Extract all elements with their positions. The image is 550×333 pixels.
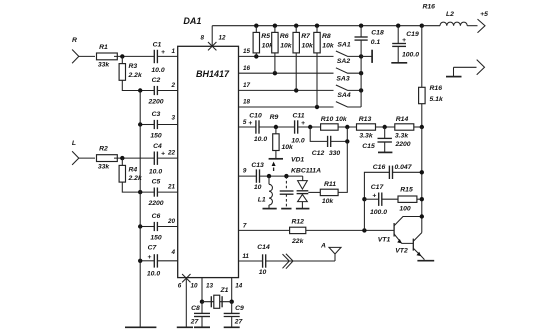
ground at C19 — [391, 62, 407, 64]
svg-text:2200: 2200 — [147, 98, 163, 105]
svg-text:Z1: Z1 — [220, 287, 229, 294]
svg-text:14: 14 — [235, 283, 243, 290]
resistor R1 33k — [97, 44, 155, 69]
node rail junctions — [254, 24, 424, 28]
wire pin 14 stub — [230, 278, 243, 304]
ground main left — [125, 326, 156, 328]
svg-text:2.2k: 2.2k — [128, 72, 143, 79]
wire pin 17 line — [239, 82, 334, 93]
capacitor C1 10.0 — [151, 41, 177, 74]
capacitor C19 100.0 — [392, 26, 419, 63]
svg-text:C15: C15 — [362, 143, 375, 150]
node L input connector — [72, 140, 95, 165]
svg-text:2200: 2200 — [394, 141, 410, 148]
wire pin 12 to top rail with X on pin 8 — [201, 26, 226, 51]
svg-text:20: 20 — [167, 218, 176, 225]
capacitor C4 10.0 (pin 22 line) — [149, 143, 178, 176]
svg-text:7: 7 — [243, 223, 247, 230]
svg-text:R13: R13 — [359, 116, 372, 123]
resistor R10 10k — [308, 116, 357, 130]
svg-text:C7: C7 — [148, 245, 158, 252]
svg-text:3.3k: 3.3k — [395, 133, 409, 140]
node antenna A — [320, 243, 341, 261]
svg-text:VT2: VT2 — [395, 247, 408, 254]
svg-text:VT1: VT1 — [378, 236, 391, 243]
svg-text:3.3k: 3.3k — [359, 133, 373, 140]
svg-text:R14: R14 — [396, 116, 409, 123]
transistor VD1 KBC111A dual varactor — [291, 156, 321, 208]
wire pin 15 line — [239, 48, 334, 59]
capacitor C18 0.1 with switch common rail — [355, 26, 384, 107]
svg-text:22k: 22k — [291, 238, 305, 245]
svg-text:C13: C13 — [251, 162, 264, 169]
inductor L1 with ground — [258, 174, 277, 209]
svg-text:R16: R16 — [422, 3, 435, 10]
svg-text:C2: C2 — [152, 77, 161, 84]
resistor R7 10k — [293, 26, 314, 91]
svg-text:10: 10 — [259, 269, 267, 276]
capacitor C6 150 (pin 20 line) — [138, 213, 178, 241]
svg-text:L: L — [72, 140, 76, 147]
capacitor C15 2200 with ground — [362, 127, 411, 152]
svg-text:C3: C3 — [152, 111, 161, 118]
svg-text:+: + — [161, 49, 165, 56]
capacitor C14 10 — [257, 244, 335, 276]
svg-text:22: 22 — [167, 150, 176, 157]
svg-text:L2: L2 — [446, 11, 454, 18]
svg-text:R7: R7 — [301, 33, 311, 40]
svg-text:18: 18 — [243, 99, 251, 106]
wire pin 18 line — [239, 99, 334, 110]
switch SA4 — [336, 92, 361, 107]
svg-text:KBC111A: KBC111A — [291, 167, 321, 174]
capacitor C10 10.0 — [249, 113, 294, 144]
resistor R11 10k — [308, 141, 347, 205]
svg-text:13: 13 — [206, 283, 214, 290]
transistor VT2 — [395, 233, 434, 261]
wire top supply rail — [212, 25, 422, 27]
capacitor C13 10 — [251, 162, 302, 191]
svg-text:C6: C6 — [152, 213, 161, 220]
resistor R5 10k — [253, 26, 274, 57]
svg-text:SA1: SA1 — [337, 41, 350, 48]
wire pin 7 line — [239, 223, 290, 231]
wire pin 11 line — [239, 253, 263, 261]
svg-text:10k: 10k — [322, 198, 335, 205]
svg-text:SA2: SA2 — [337, 58, 350, 65]
inductor L2 — [422, 11, 467, 26]
capacitor C3 150 (pin 3 line) — [138, 111, 178, 139]
capacitor C8 27 with ground — [190, 302, 210, 328]
svg-text:C12: C12 — [312, 150, 325, 157]
resistor R9 10k with ground — [269, 114, 294, 159]
svg-text:R15: R15 — [400, 187, 413, 194]
svg-text:10k: 10k — [322, 42, 335, 49]
svg-text:0.047: 0.047 — [394, 164, 412, 171]
switch SA1 — [336, 41, 363, 58]
svg-text:10k: 10k — [280, 42, 293, 49]
svg-text:R8: R8 — [322, 33, 331, 40]
transistor VT1 — [378, 214, 424, 243]
svg-text:C18: C18 — [371, 30, 384, 37]
svg-text:150: 150 — [150, 132, 162, 139]
svg-text:10k: 10k — [335, 116, 348, 123]
svg-text:+5: +5 — [480, 11, 488, 18]
svg-text:10.0: 10.0 — [149, 169, 162, 176]
resistor R14 3.3k — [395, 116, 424, 139]
svg-text:100: 100 — [399, 205, 411, 212]
svg-text:10.0: 10.0 — [151, 67, 164, 74]
svg-text:+: + — [248, 120, 252, 127]
svg-text:C17: C17 — [371, 184, 385, 191]
resistor R2 33k — [97, 146, 155, 171]
resistor R8 10k — [314, 26, 335, 107]
resistor R3 2.2k — [119, 56, 154, 90]
svg-text:10.0: 10.0 — [147, 271, 160, 278]
svg-text:C14: C14 — [257, 244, 270, 251]
svg-text:27: 27 — [190, 319, 200, 326]
svg-text:C16: C16 — [373, 164, 386, 171]
svg-text:2: 2 — [171, 82, 176, 89]
svg-text:R11: R11 — [324, 181, 336, 188]
svg-text:+: + — [372, 192, 376, 199]
svg-text:A: A — [320, 243, 326, 250]
resistor R16 5.1k — [419, 26, 444, 127]
svg-text:C11: C11 — [293, 113, 305, 120]
svg-text:SA3: SA3 — [336, 75, 349, 82]
svg-text:10: 10 — [190, 283, 198, 290]
svg-text:BH1417: BH1417 — [196, 69, 230, 79]
svg-text:R10: R10 — [321, 116, 334, 123]
svg-text:16: 16 — [243, 65, 251, 72]
svg-text:8: 8 — [201, 34, 205, 41]
crystal Z1 — [202, 287, 232, 309]
resistor R6 10k — [272, 26, 293, 73]
svg-text:17: 17 — [243, 82, 251, 89]
svg-text:27: 27 — [234, 319, 244, 326]
svg-text:10.0: 10.0 — [291, 137, 304, 144]
svg-text:C8: C8 — [191, 305, 200, 312]
node power ground return connector — [446, 60, 485, 77]
svg-text:10k: 10k — [282, 144, 295, 151]
resistor R4 2.2k — [119, 158, 154, 192]
svg-text:+: + — [301, 120, 305, 127]
svg-text:21: 21 — [167, 183, 176, 190]
wire right rail below R14 — [421, 127, 423, 233]
svg-text:6: 6 — [178, 283, 182, 290]
svg-text:R3: R3 — [129, 63, 138, 70]
capacitor C5 2200 (pin 21 line) — [138, 179, 178, 207]
capacitor C11 10.0 — [291, 113, 320, 145]
capacitor C7 10.0 (pin 4 line) — [138, 245, 178, 278]
svg-text:C10: C10 — [249, 113, 262, 120]
svg-text:10k: 10k — [302, 42, 315, 49]
wire pin 16 line — [239, 65, 334, 76]
ground at C18 / switches — [361, 50, 372, 63]
svg-text:R1: R1 — [99, 44, 108, 51]
capacitor C2 2200 (pin 2 line) — [138, 77, 178, 105]
svg-text:150: 150 — [150, 234, 162, 241]
svg-text:4: 4 — [171, 249, 176, 256]
svg-text:11: 11 — [242, 253, 249, 260]
node R input connector — [72, 37, 95, 63]
capacitor C16 0.047 — [364, 164, 424, 199]
capacitor stray (dashed branch) with ground — [280, 174, 294, 209]
svg-text:5: 5 — [243, 119, 247, 126]
svg-text:100.0: 100.0 — [402, 51, 419, 58]
svg-text:R5: R5 — [261, 33, 270, 40]
svg-text:10: 10 — [254, 184, 262, 191]
op-amp U1 : IC DA1 BH1417 body — [178, 16, 239, 278]
svg-text:+: + — [402, 37, 406, 44]
svg-text:C4: C4 — [153, 143, 162, 150]
svg-text:15: 15 — [243, 48, 251, 55]
svg-text:R4: R4 — [129, 166, 138, 173]
svg-text:R12: R12 — [291, 218, 304, 225]
svg-text:3: 3 — [172, 114, 176, 121]
node RF output chevron connector — [283, 254, 294, 269]
node +5 output connector — [467, 11, 488, 33]
svg-text:VD1: VD1 — [291, 156, 304, 163]
svg-text:R16: R16 — [430, 85, 443, 92]
svg-text:100.0: 100.0 — [370, 209, 387, 216]
svg-text:12: 12 — [218, 34, 226, 41]
svg-text:L1: L1 — [258, 197, 266, 204]
svg-text:+: + — [161, 151, 165, 158]
wire left ground bus — [139, 91, 141, 328]
capacitor C17 100.0 — [362, 184, 398, 216]
svg-text:R2: R2 — [99, 146, 108, 153]
switch SA2 — [336, 58, 363, 75]
svg-text:0.1: 0.1 — [371, 39, 381, 46]
svg-text:SA4: SA4 — [337, 92, 350, 99]
svg-text:R6: R6 — [280, 33, 289, 40]
resistor R15 100 — [398, 187, 424, 213]
svg-text:R9: R9 — [270, 114, 279, 121]
wire pin 5 line — [239, 119, 256, 127]
ground at pin 10 — [177, 326, 193, 328]
resistor R13 3.3k — [357, 116, 395, 139]
svg-text:C1: C1 — [153, 41, 162, 48]
svg-text:330: 330 — [329, 150, 341, 157]
switch SA3 — [336, 75, 363, 92]
capacitor C9 27 with ground — [224, 302, 244, 328]
svg-text:10.0: 10.0 — [254, 136, 267, 143]
capacitor C12 330 (parallel with R10) — [310, 127, 349, 157]
wire pin 6/10 to ground with X on pin 6 — [178, 274, 198, 327]
svg-text:33k: 33k — [98, 62, 111, 69]
wire pin 9 line — [239, 167, 257, 176]
svg-text:1: 1 — [172, 48, 176, 55]
svg-text:9: 9 — [243, 167, 247, 174]
svg-text:DA1: DA1 — [183, 16, 201, 26]
svg-text:5.1k: 5.1k — [430, 96, 444, 103]
svg-text:C9: C9 — [235, 305, 244, 312]
svg-text:R: R — [72, 37, 77, 44]
node tuning arrow mark — [272, 162, 276, 171]
svg-text:C19: C19 — [406, 31, 419, 38]
svg-text:C5: C5 — [152, 179, 161, 186]
svg-text:+: + — [147, 254, 151, 261]
wire pin 13 stub — [200, 278, 214, 304]
svg-text:33k: 33k — [98, 163, 111, 170]
resistor R12 22k — [290, 199, 395, 245]
svg-text:2200: 2200 — [147, 200, 163, 207]
